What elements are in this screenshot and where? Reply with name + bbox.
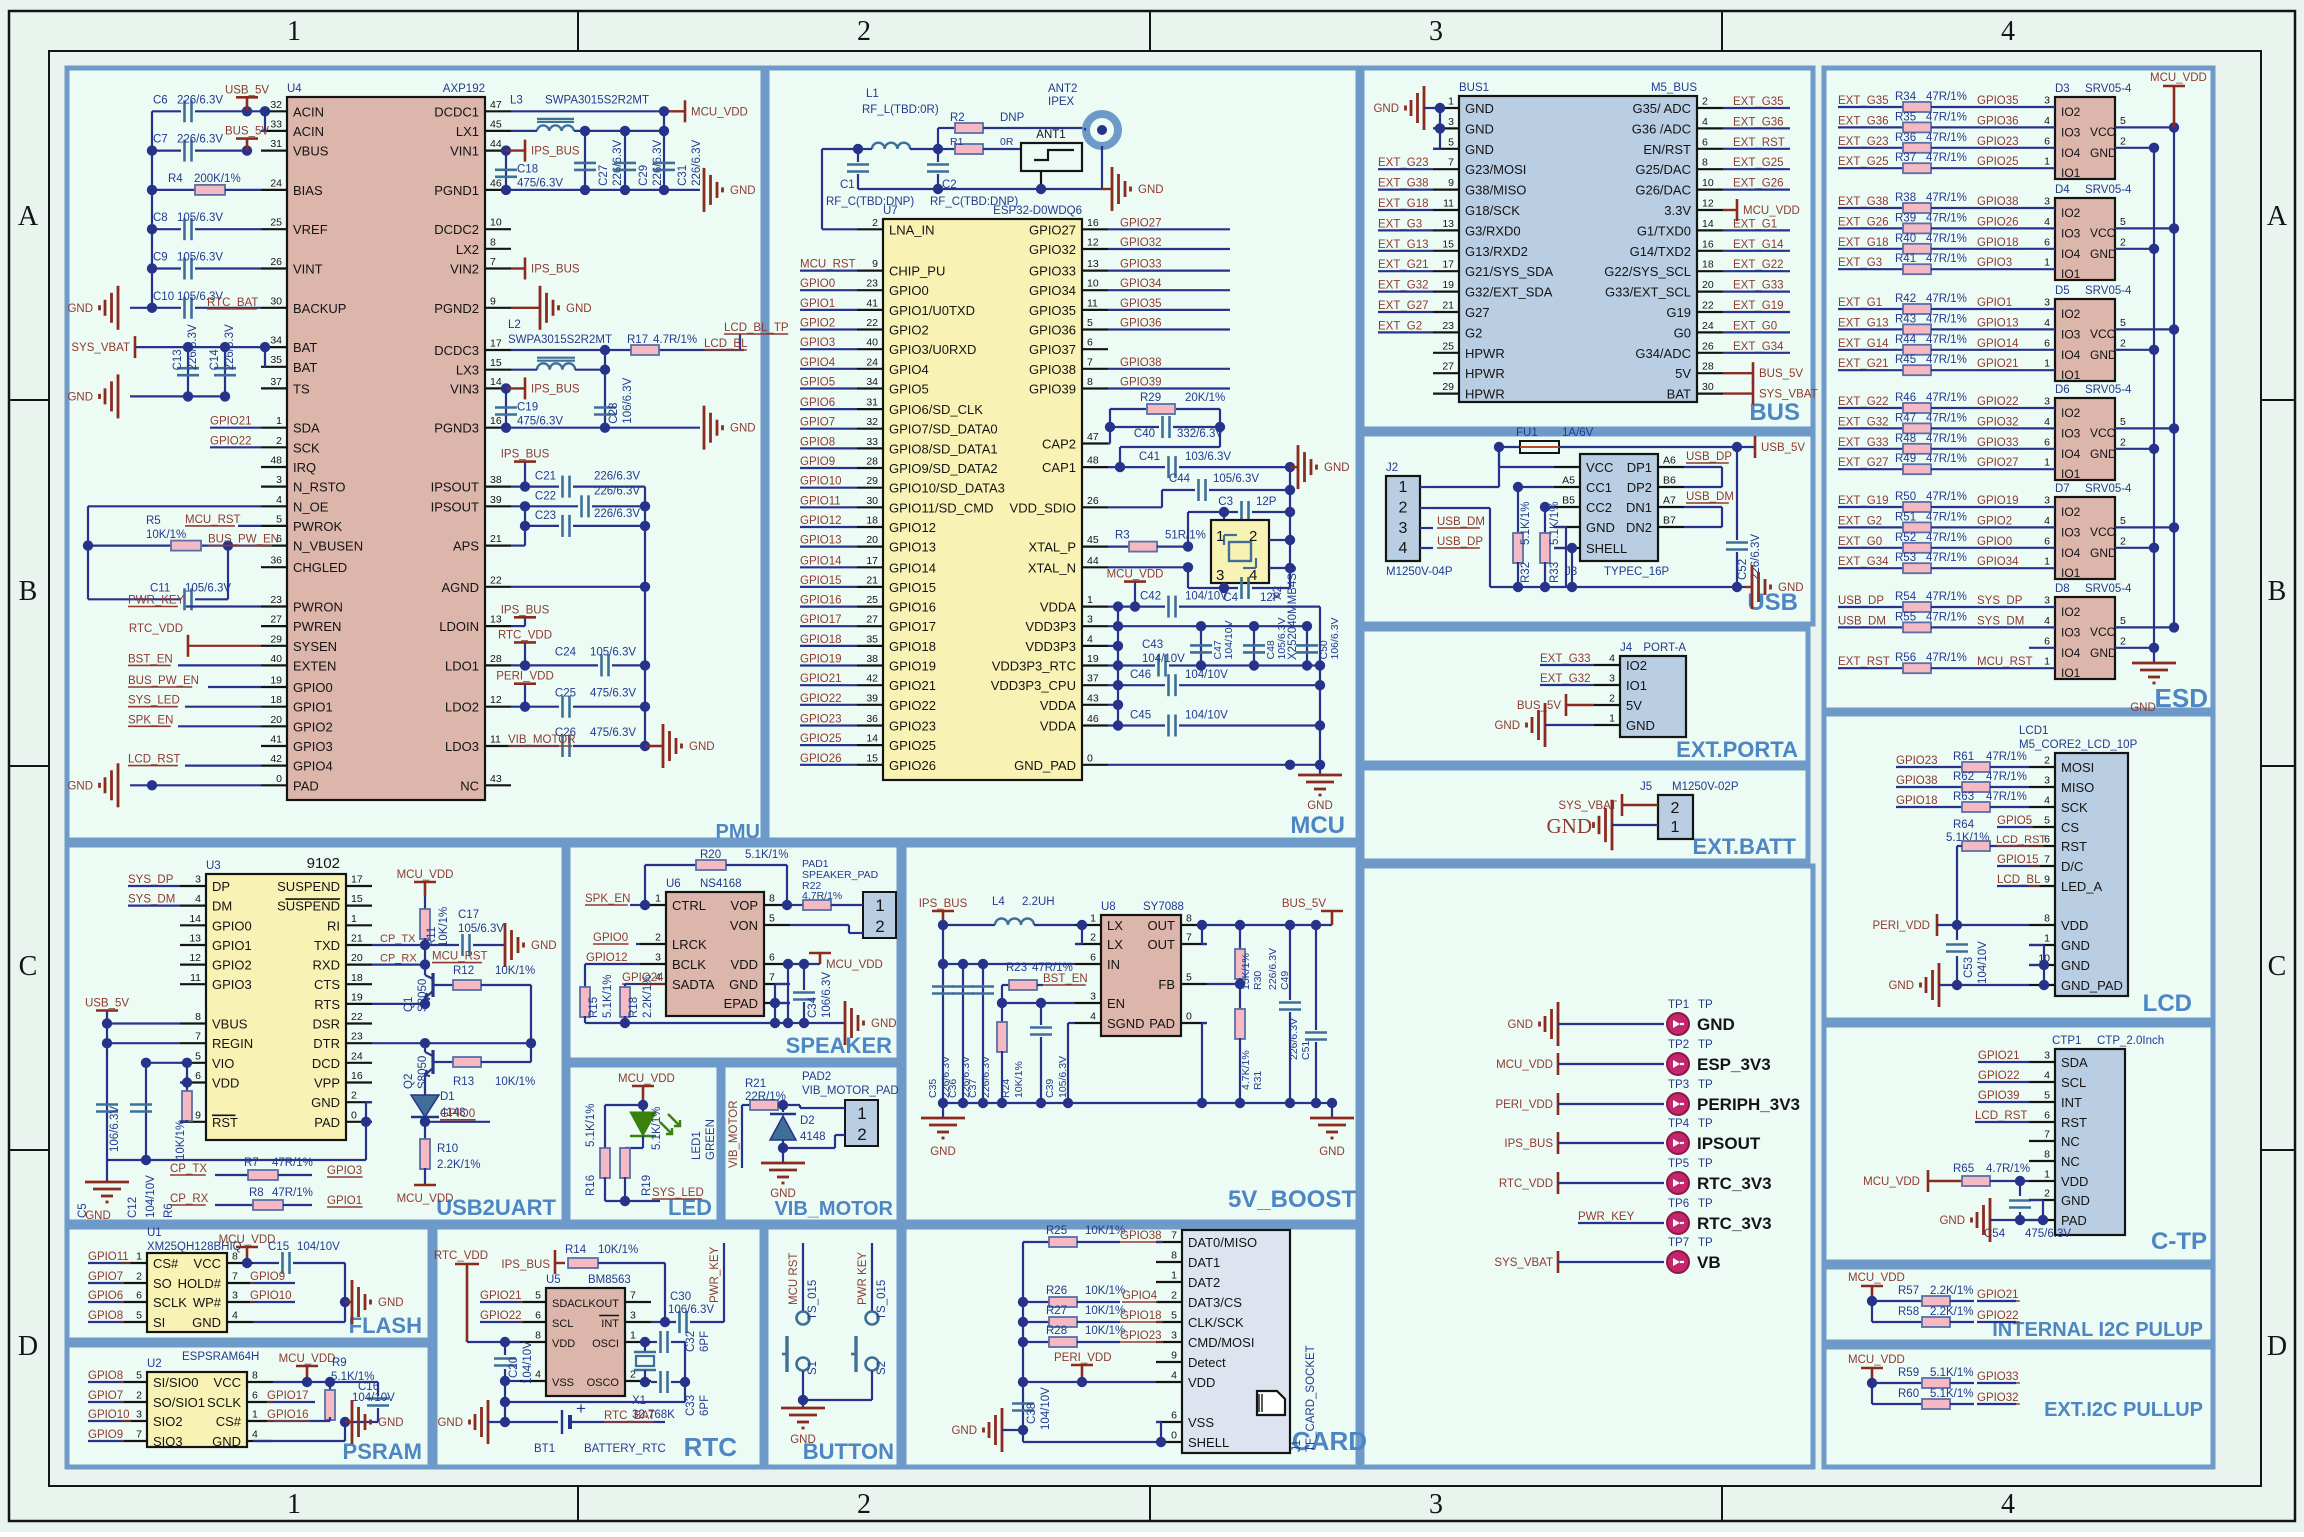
svg-text:12P: 12P	[1260, 592, 1281, 604]
block frame VIB_MOTOR	[723, 1065, 899, 1222]
U4 right pins	[431, 99, 511, 794]
svg-text:19: 19	[1442, 279, 1454, 291]
block frame INTERNAL I2C PULUP	[1824, 1267, 2213, 1342]
svg-text:14: 14	[189, 913, 201, 925]
svg-text:GND: GND	[1324, 462, 1350, 474]
net label USB_DM j3	[1686, 491, 1734, 503]
ground GND usb	[1745, 565, 1804, 609]
svg-text:DAT3/CS: DAT3/CS	[1188, 1295, 1242, 1310]
svg-text:8: 8	[535, 1330, 541, 1342]
pin stub D5 row3	[2029, 358, 2055, 371]
svg-text:5: 5	[2120, 416, 2126, 428]
svg-text:B: B	[2268, 576, 2287, 607]
svg-text:8: 8	[2044, 913, 2050, 925]
svg-text:C17: C17	[458, 909, 479, 921]
svg-text:GPIO26: GPIO26	[800, 753, 842, 765]
svg-text:C42: C42	[1140, 591, 1161, 603]
svg-text:C46: C46	[1130, 669, 1151, 681]
svg-text:AGND: AGND	[441, 580, 479, 595]
capacitor C1	[826, 144, 914, 208]
capacitor C5	[77, 1105, 121, 1219]
svg-text:GPIO1: GPIO1	[800, 298, 835, 310]
capacitor C51	[1288, 925, 1327, 1103]
title PSRAM	[343, 1439, 422, 1464]
svg-text:47R/1%: 47R/1%	[1926, 152, 1967, 164]
svg-text:D2: D2	[800, 1115, 815, 1127]
ground GND ant	[1102, 167, 1164, 211]
svg-text:26: 26	[270, 256, 282, 268]
svg-text:LDOIN: LDOIN	[439, 619, 479, 634]
svg-text:4: 4	[2001, 16, 2015, 47]
wire VIO VDD	[146, 1058, 192, 1092]
svg-text:GND: GND	[2061, 938, 2090, 953]
svg-text:GND: GND	[1626, 718, 1655, 733]
capacitor C41 labels	[1139, 451, 1231, 463]
svg-text:R9: R9	[332, 1357, 347, 1369]
svg-text:INT: INT	[601, 1318, 619, 1330]
svg-text:C30: C30	[670, 1291, 691, 1303]
LCD1 pins	[2029, 755, 2123, 994]
pin stub D3 row0	[2029, 95, 2055, 108]
power flag PERI_VDD card	[1054, 1352, 1112, 1387]
svg-text:C10: C10	[153, 291, 174, 303]
inductor L4	[943, 896, 1075, 925]
svg-text:EXT_RST: EXT_RST	[1838, 656, 1890, 668]
svg-text:NS4168: NS4168	[700, 878, 742, 890]
svg-text:41: 41	[866, 297, 878, 309]
svg-text:8: 8	[490, 236, 496, 248]
svg-text:BUTTON: BUTTON	[803, 1439, 894, 1464]
wire VDD card	[1023, 1381, 1156, 1383]
svg-text:C3: C3	[1218, 496, 1233, 508]
svg-text:4: 4	[1609, 653, 1615, 665]
svg-text:PWR KEY: PWR KEY	[857, 1252, 869, 1305]
svg-text:G23/MOSI: G23/MOSI	[1465, 162, 1526, 177]
svg-text:6: 6	[1702, 136, 1708, 148]
svg-text:8: 8	[2044, 1149, 2050, 1161]
ground GND pgnd2	[511, 286, 592, 330]
svg-text:PWR_KEY: PWR_KEY	[1578, 1211, 1635, 1223]
svg-text:1: 1	[136, 1251, 142, 1263]
svg-text:GPIO14: GPIO14	[800, 555, 842, 567]
capacitor C33	[651, 1371, 711, 1416]
svg-text:C49: C49	[1279, 971, 1291, 990]
svg-text:SYS_VBAT: SYS_VBAT	[71, 342, 130, 354]
svg-text:EXT_G36: EXT_G36	[1838, 115, 1889, 127]
svg-text:GND: GND	[730, 423, 756, 435]
svg-text:R38: R38	[1895, 192, 1916, 204]
svg-text:IO2: IO2	[2061, 505, 2081, 519]
svg-text:GPIO36: GPIO36	[1029, 323, 1076, 338]
svg-text:DCDC1: DCDC1	[434, 104, 479, 119]
svg-text:7: 7	[2044, 854, 2050, 866]
svg-text:475/6.3V: 475/6.3V	[2025, 1228, 2071, 1240]
pin stub D4 row2	[2029, 236, 2055, 249]
svg-text:106/6.3V: 106/6.3V	[109, 1106, 121, 1152]
svg-text:47R/1%: 47R/1%	[1926, 511, 1967, 523]
svg-text:C19: C19	[517, 401, 538, 413]
net label CP_RX	[372, 953, 425, 965]
svg-text:EXT.PORTA: EXT.PORTA	[1676, 737, 1798, 762]
svg-text:12: 12	[189, 952, 201, 964]
svg-text:GPIO21: GPIO21	[1977, 1289, 2019, 1301]
capacitor C24	[511, 646, 650, 676]
wire SGND	[1068, 1023, 1075, 1103]
power flag IPS_BUS ipsout	[501, 449, 550, 487]
resistor R2	[938, 112, 1085, 149]
svg-text:GND: GND	[1586, 520, 1615, 535]
ground GND boost left	[921, 1103, 965, 1158]
svg-text:INTERNAL I2C PULUP: INTERNAL I2C PULUP	[1992, 1319, 2203, 1341]
svg-text:R39: R39	[1895, 212, 1916, 224]
svg-text:R17: R17	[627, 334, 648, 346]
svg-text:USB_DP: USB_DP	[1838, 595, 1884, 607]
svg-text:IO4: IO4	[2061, 247, 2081, 261]
power flag BUS_5V	[225, 126, 269, 151]
svg-text:7: 7	[630, 1290, 636, 1302]
U8 left pins	[1075, 913, 1145, 1032]
svg-text:R54: R54	[1895, 591, 1917, 603]
svg-text:GPIO38: GPIO38	[1896, 775, 1938, 787]
svg-text:7: 7	[769, 972, 775, 984]
power flag SYS_VBAT	[71, 336, 261, 358]
svg-text:SIO3: SIO3	[153, 1434, 183, 1449]
svg-text:3: 3	[1090, 991, 1096, 1003]
svg-text:2: 2	[857, 1125, 866, 1144]
svg-text:R10: R10	[437, 1143, 458, 1155]
svg-text:34: 34	[866, 376, 878, 388]
svg-text:EXT_G18: EXT_G18	[1378, 198, 1429, 210]
svg-text:HOLD#: HOLD#	[178, 1276, 222, 1291]
wire VDDA43	[1108, 700, 1123, 710]
svg-text:GPIO14: GPIO14	[889, 560, 936, 575]
svg-text:47R/1%: 47R/1%	[1926, 253, 1967, 265]
svg-text:VBUS: VBUS	[293, 144, 329, 159]
svg-text:CP_RX: CP_RX	[170, 1193, 209, 1205]
U2 right pins	[207, 1370, 273, 1450]
svg-text:6: 6	[2044, 1110, 2050, 1122]
svg-text:GND: GND	[1888, 980, 1914, 992]
svg-text:5: 5	[2120, 216, 2126, 228]
capacitor C3	[1188, 496, 1295, 547]
svg-text:M1250V-04P: M1250V-04P	[1386, 566, 1453, 578]
svg-text:SRV05-4: SRV05-4	[2085, 83, 2132, 95]
net label USB_DM j2	[1437, 516, 1485, 528]
svg-text:GND: GND	[1138, 184, 1164, 196]
svg-text:M1250V-02P: M1250V-02P	[1672, 781, 1739, 793]
svg-text:U5: U5	[546, 1274, 561, 1286]
svg-text:GPIO2: GPIO2	[293, 719, 333, 734]
svg-text:6PF: 6PF	[699, 1395, 711, 1416]
svg-text:PWRON: PWRON	[293, 600, 343, 615]
svg-text:GPIO25: GPIO25	[1977, 156, 2019, 168]
svg-text:IO4: IO4	[2061, 646, 2081, 660]
svg-text:226/6.3V: 226/6.3V	[1288, 1018, 1300, 1060]
svg-text:CLKOUT: CLKOUT	[574, 1298, 619, 1310]
svg-text:GND: GND	[790, 1434, 816, 1446]
wire J3 GND	[1554, 527, 1566, 587]
resistor R32	[1513, 482, 1554, 587]
svg-text:VDD: VDD	[552, 1338, 575, 1350]
block frame FLASH	[67, 1227, 430, 1340]
svg-text:GPIO16: GPIO16	[889, 600, 936, 615]
svg-text:OSCO: OSCO	[587, 1377, 620, 1389]
svg-text:226/6.3V: 226/6.3V	[980, 1056, 992, 1098]
svg-text:IO4: IO4	[2061, 546, 2081, 560]
svg-text:C1: C1	[840, 179, 855, 191]
svg-text:IPS_BUS: IPS_BUS	[531, 383, 580, 395]
svg-text:39: 39	[866, 692, 878, 704]
wire VCC D8	[2115, 615, 2179, 633]
svg-text:6: 6	[252, 1390, 258, 1402]
svg-text:3: 3	[1609, 673, 1615, 685]
svg-text:47R/1%: 47R/1%	[272, 1187, 313, 1199]
svg-text:D7: D7	[2055, 483, 2070, 495]
svg-text:C43: C43	[1142, 639, 1163, 651]
MCU left net labels	[800, 259, 857, 765]
svg-text:24: 24	[1702, 320, 1714, 332]
svg-text:LCD: LCD	[2143, 990, 2192, 1017]
svg-text:VCC: VCC	[1586, 460, 1613, 475]
ic J2 M1250V-04P	[1386, 462, 1453, 578]
svg-text:GND: GND	[378, 1417, 404, 1429]
svg-text:19: 19	[351, 991, 363, 1003]
svg-text:GPIO37: GPIO37	[1029, 342, 1076, 357]
svg-text:VON: VON	[730, 918, 758, 933]
svg-text:GPIO11/SD_CMD: GPIO11/SD_CMD	[889, 500, 994, 515]
wire ant gnd	[858, 146, 1102, 194]
svg-text:U4: U4	[287, 83, 302, 95]
svg-text:C29: C29	[638, 165, 650, 186]
U5 left pins	[520, 1290, 575, 1390]
svg-text:PMU: PMU	[716, 821, 760, 843]
power flag IPS_BUS vin1	[501, 140, 580, 162]
power flag MCU_VDD psram	[279, 1353, 336, 1387]
svg-text:PAD: PAD	[1149, 1016, 1175, 1031]
svg-text:GPIO27: GPIO27	[1120, 217, 1162, 229]
svg-text:GND: GND	[871, 1018, 897, 1030]
svg-text:VDD: VDD	[2061, 918, 2088, 933]
svg-text:17: 17	[866, 555, 878, 567]
svg-text:105/6.3V: 105/6.3V	[1213, 473, 1259, 485]
svg-text:NC: NC	[2061, 1134, 2080, 1149]
svg-text:DAT2: DAT2	[1188, 1275, 1220, 1290]
svg-text:EXT_G14: EXT_G14	[1838, 338, 1889, 350]
svg-text:9: 9	[1448, 177, 1454, 189]
svg-text:DSR: DSR	[313, 1017, 340, 1032]
BUS left net labels	[1378, 157, 1433, 332]
block frame BUTTON	[766, 1227, 899, 1467]
svg-text:14: 14	[866, 733, 878, 745]
svg-text:18: 18	[351, 972, 363, 984]
svg-text:GPIO39: GPIO39	[1029, 382, 1076, 397]
resistor R27	[1023, 1305, 1125, 1327]
svg-text:GPIO2: GPIO2	[800, 318, 835, 330]
svg-text:PGND3: PGND3	[434, 421, 479, 436]
ic D3 SRV05-4	[2055, 83, 2132, 180]
wire left cap rail	[152, 111, 261, 307]
svg-text:47: 47	[1087, 431, 1099, 443]
wire VON pad	[790, 925, 863, 933]
svg-text:XTAL_N: XTAL_N	[1028, 560, 1076, 575]
ground GND ldo rail	[645, 724, 715, 768]
wire J2 pin2	[1433, 508, 1490, 587]
svg-text:5.1K/1%: 5.1K/1%	[1520, 502, 1532, 545]
svg-text:CTP_2.0Inch: CTP_2.0Inch	[2097, 1035, 2164, 1047]
svg-text:47R/1%: 47R/1%	[1926, 433, 1967, 445]
resistor R7	[244, 1157, 313, 1180]
svg-text:GPIO2: GPIO2	[1977, 515, 2012, 527]
svg-text:IO1: IO1	[2061, 267, 2081, 281]
svg-text:R53: R53	[1895, 552, 1916, 564]
svg-text:GPIO16: GPIO16	[267, 1409, 309, 1421]
U7 right pins	[991, 217, 1108, 773]
block frame C-TP	[1824, 1025, 2213, 1262]
svg-text:11: 11	[1443, 198, 1454, 210]
net label GPIO18 card	[1120, 1310, 1163, 1322]
svg-text:GPIO9/SD_DATA2: GPIO9/SD_DATA2	[889, 461, 998, 476]
svg-text:47R/1%: 47R/1%	[1926, 233, 1967, 245]
svg-text:1: 1	[1399, 479, 1408, 496]
pin stub D7 row3	[2029, 556, 2055, 569]
svg-text:105/6.3V: 105/6.3V	[1276, 617, 1288, 659]
net label GPIO7 flash	[88, 1271, 124, 1283]
ic U1 XM25QH128BHIQ	[147, 1227, 242, 1332]
resistor R36 47R	[1838, 132, 2029, 153]
svg-text:RTS: RTS	[314, 997, 340, 1012]
power flag USB_5V	[225, 84, 269, 131]
svg-text:M5_CORE2_LCD_10P: M5_CORE2_LCD_10P	[2019, 739, 2138, 751]
net label CP_RX r8	[170, 1193, 253, 1205]
svg-text:SWPA3015S2R2MT: SWPA3015S2R2MT	[508, 334, 612, 346]
ground GND mcu	[1298, 765, 1342, 812]
svg-text:G38/MISO: G38/MISO	[1465, 183, 1526, 198]
svg-text:APS: APS	[453, 539, 479, 554]
svg-text:LED_A: LED_A	[2061, 879, 2103, 894]
svg-text:R15: R15	[588, 997, 600, 1018]
svg-text:GPIO32: GPIO32	[1977, 1392, 2019, 1404]
svg-text:GREEN: GREEN	[705, 1119, 717, 1160]
svg-text:LCD_RST: LCD_RST	[128, 754, 180, 766]
capacitor C39	[1030, 1003, 1069, 1103]
svg-text:3: 3	[1087, 614, 1093, 626]
svg-text:34: 34	[270, 335, 282, 347]
svg-text:19: 19	[1087, 653, 1099, 665]
svg-text:SRV05-4: SRV05-4	[2085, 285, 2132, 297]
svg-text:OUT: OUT	[1148, 937, 1176, 952]
svg-text:R61: R61	[1953, 751, 1974, 763]
svg-text:R48: R48	[1895, 433, 1916, 445]
svg-text:MCU RST: MCU RST	[788, 1253, 800, 1305]
svg-text:GPIO12: GPIO12	[889, 520, 936, 535]
title SPEAKER	[786, 1033, 892, 1058]
svg-text:TXD: TXD	[314, 938, 340, 953]
svg-text:C18: C18	[517, 164, 538, 176]
net label GPIO22 rtc	[480, 1310, 523, 1322]
battery BT1	[505, 1399, 666, 1455]
svg-text:BATTERY_RTC: BATTERY_RTC	[584, 1443, 666, 1455]
resistor R60	[1872, 1388, 1974, 1409]
svg-text:105/6.3V: 105/6.3V	[177, 212, 223, 224]
svg-text:REGIN: REGIN	[212, 1036, 253, 1051]
svg-text:C53: C53	[1963, 957, 1975, 978]
svg-text:SI: SI	[153, 1315, 165, 1330]
svg-text:GPIO35: GPIO35	[1977, 95, 2019, 107]
svg-text:VDD: VDD	[2061, 1174, 2088, 1189]
svg-text:VSS: VSS	[1188, 1415, 1214, 1430]
svg-text:IO1: IO1	[2061, 467, 2081, 481]
svg-text:VIB_MOTOR_PAD: VIB_MOTOR_PAD	[802, 1085, 899, 1097]
svg-text:7: 7	[1186, 932, 1192, 944]
net label GPIO39 ctp	[1978, 1090, 2029, 1102]
svg-text:30: 30	[866, 495, 878, 507]
J4 pins	[1594, 653, 1655, 734]
J1 pins	[1156, 1230, 1257, 1451]
svg-text:R16: R16	[585, 1175, 597, 1196]
net label GPIO32 i2c	[1977, 1392, 2020, 1404]
net label SPK_EN	[128, 714, 261, 726]
svg-text:GPIO7: GPIO7	[88, 1271, 123, 1283]
svg-text:24: 24	[270, 177, 282, 189]
svg-text:1: 1	[1087, 594, 1093, 606]
svg-text:GND: GND	[1697, 1015, 1735, 1034]
svg-text:GPIO19: GPIO19	[800, 654, 842, 666]
svg-text:R32: R32	[1520, 562, 1532, 583]
capacitor C19	[495, 388, 563, 427]
inductor L2	[508, 319, 612, 428]
svg-text:GPIO33: GPIO33	[1977, 1371, 2019, 1383]
net label GPIO11 flash	[88, 1251, 131, 1263]
svg-text:3: 3	[136, 1409, 142, 1421]
svg-text:1: 1	[2044, 1169, 2050, 1181]
svg-text:6: 6	[2044, 236, 2050, 248]
svg-text:RTC_3V3: RTC_3V3	[1697, 1174, 1772, 1193]
svg-text:C21: C21	[535, 471, 556, 483]
svg-text:R31: R31	[1252, 1071, 1264, 1090]
capacitor C32	[651, 1331, 711, 1353]
ic D8 SRV05-4	[2055, 583, 2132, 680]
svg-text:4: 4	[2001, 1489, 2015, 1520]
svg-text:10: 10	[1702, 177, 1714, 189]
svg-text:21: 21	[866, 574, 878, 586]
svg-text:IPS_BUS: IPS_BUS	[919, 898, 968, 910]
svg-text:VDD: VDD	[212, 1076, 239, 1091]
svg-text:BUS: BUS	[1749, 399, 1800, 426]
svg-text:3: 3	[655, 952, 661, 964]
svg-text:TP3: TP3	[1668, 1079, 1689, 1091]
svg-text:TP7: TP7	[1668, 1237, 1689, 1249]
svg-text:0R: 0R	[1000, 136, 1014, 148]
net label CP_TX	[372, 933, 425, 945]
svg-text:EXT_G34: EXT_G34	[1733, 341, 1784, 353]
svg-text:MOSI: MOSI	[2061, 760, 2094, 775]
resistor R31	[1235, 984, 1264, 1103]
svg-text:17: 17	[1442, 259, 1454, 271]
svg-text:MCU: MCU	[1290, 812, 1345, 839]
svg-text:42: 42	[270, 753, 282, 765]
J3 left pins	[1554, 460, 1627, 556]
svg-text:23: 23	[270, 594, 282, 606]
capacitor C54	[1984, 1181, 2071, 1240]
resistor R6	[163, 1091, 192, 1218]
svg-text:104/10V: 104/10V	[297, 1241, 340, 1253]
junction dcdc3	[600, 345, 610, 355]
svg-text:VDD: VDD	[731, 957, 758, 972]
svg-text:R27: R27	[1046, 1305, 1067, 1317]
wire OUT net	[1197, 920, 1332, 944]
resistor R57	[1872, 1285, 1974, 1306]
block frame EXT.I2C PULLUP	[1824, 1347, 2213, 1467]
